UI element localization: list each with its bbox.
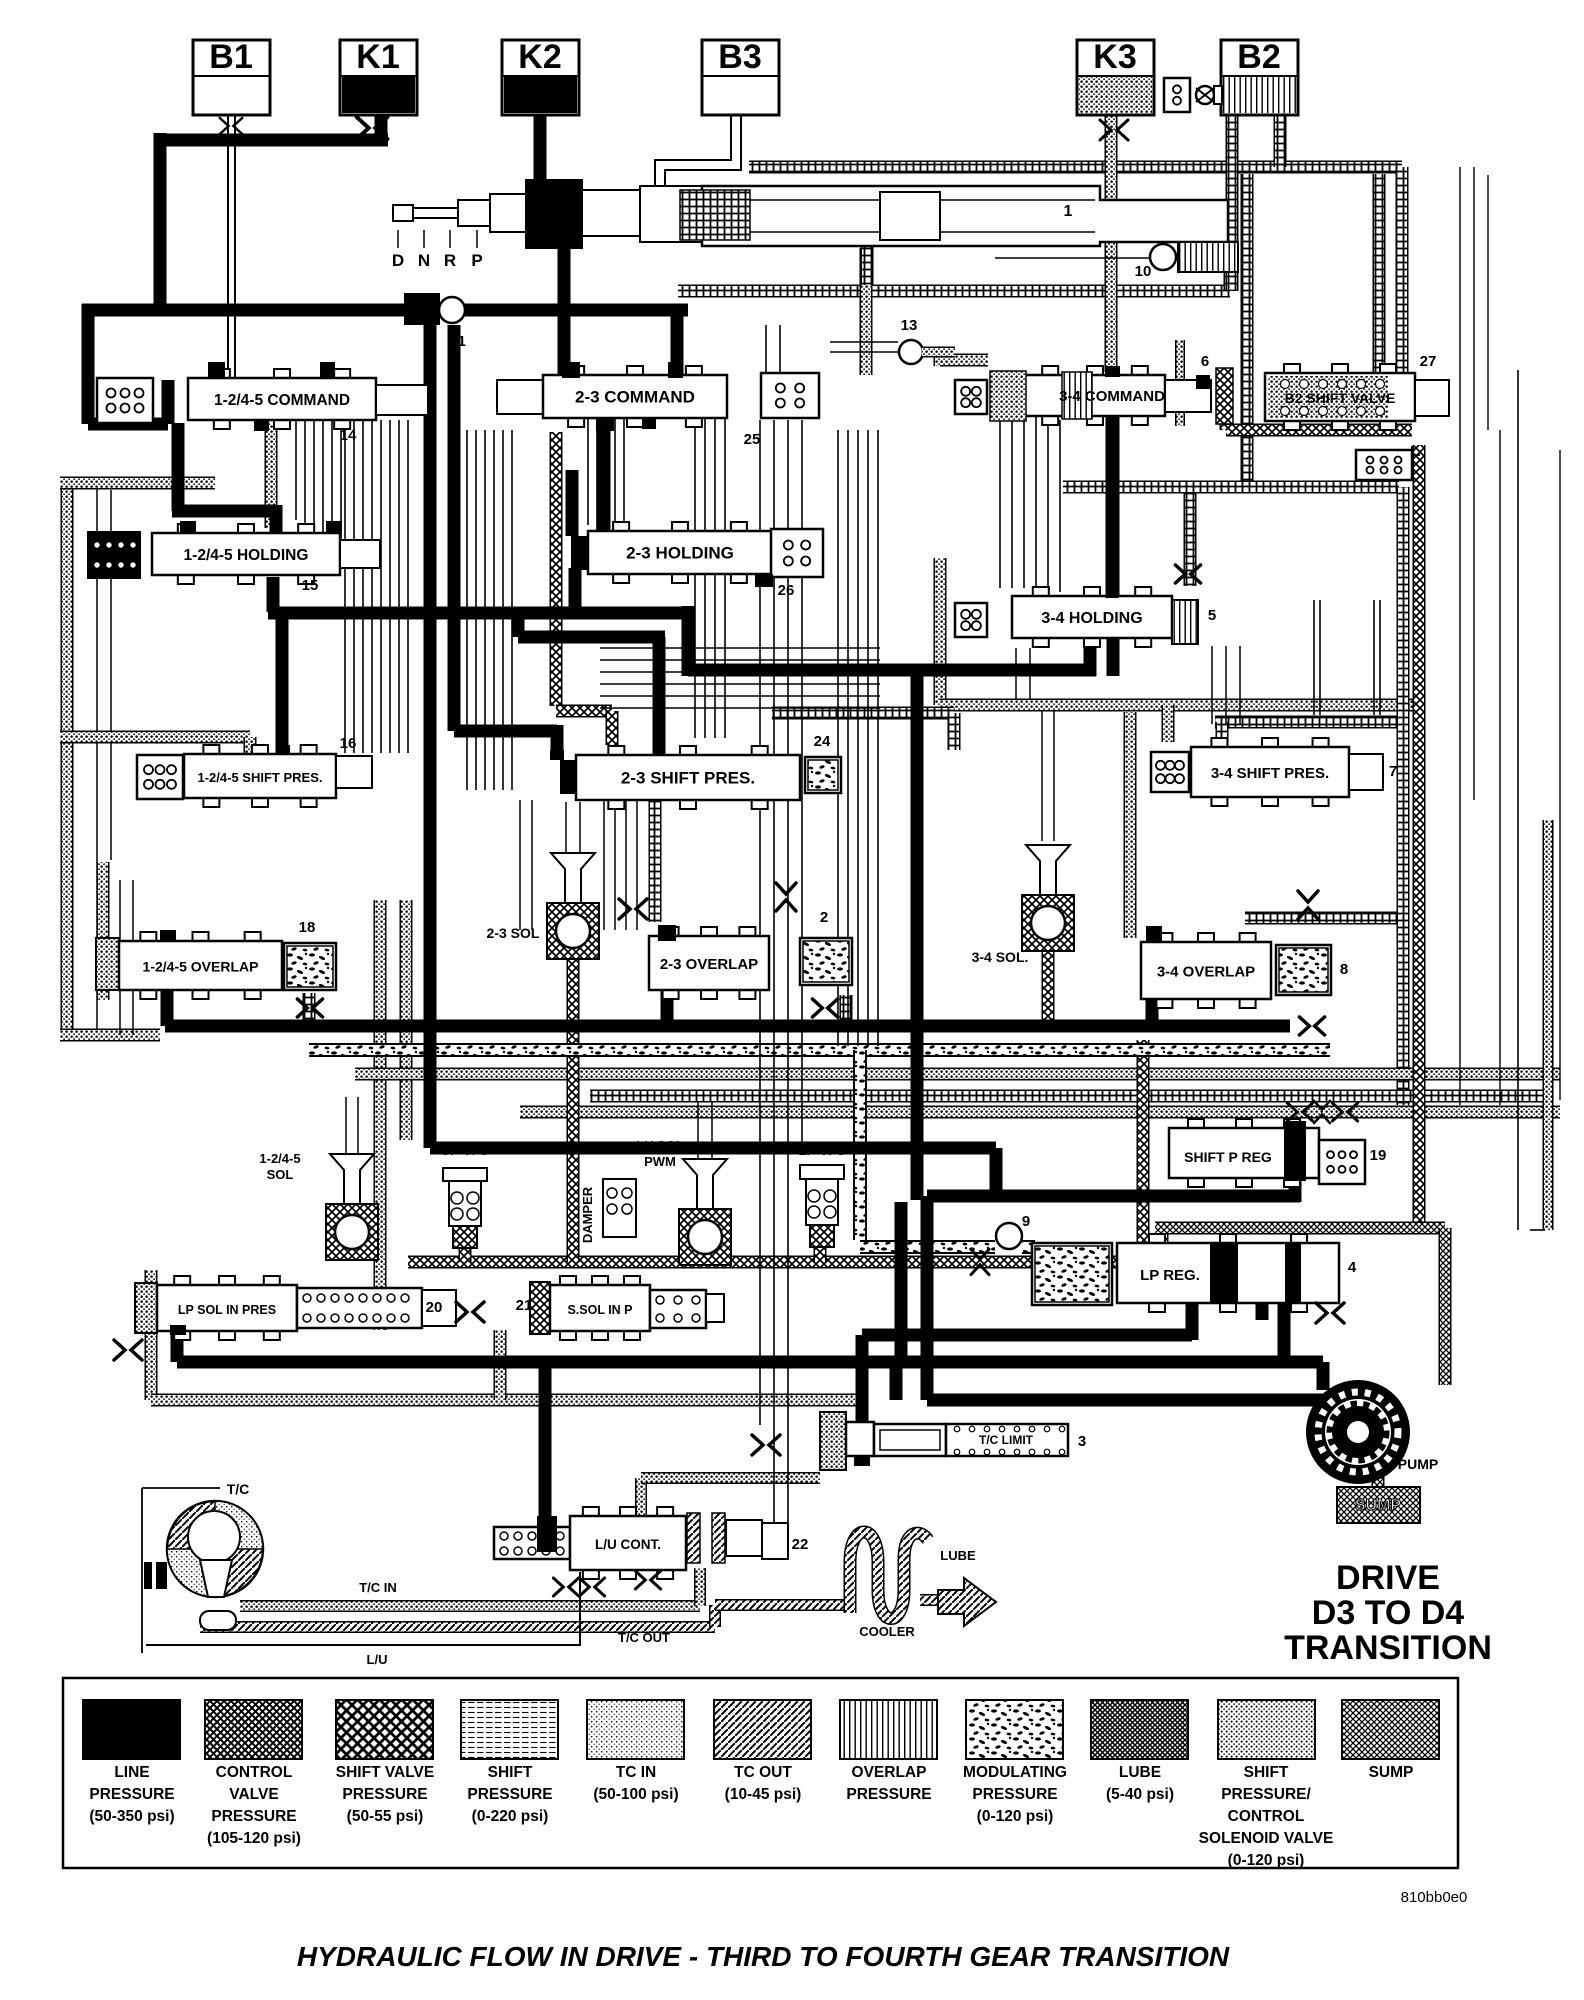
svg-text:(105-120 psi): (105-120 psi) xyxy=(207,1830,301,1847)
svg-text:LP SOL IN PRES: LP SOL IN PRES xyxy=(178,1303,276,1317)
svg-text:PRESSURE: PRESSURE xyxy=(846,1786,931,1803)
svg-text:LP VFS: LP VFS xyxy=(798,1143,845,1158)
svg-text:OVERLAP: OVERLAP xyxy=(852,1764,927,1781)
svg-text:24: 24 xyxy=(814,733,831,750)
svg-text:5: 5 xyxy=(1208,607,1216,624)
svg-text:PRESSURE: PRESSURE xyxy=(342,1786,427,1803)
svg-text:11: 11 xyxy=(450,333,466,350)
svg-text:27: 27 xyxy=(1420,353,1437,370)
svg-text:PUMP: PUMP xyxy=(1398,1456,1438,1472)
svg-text:S.SOL IN P: S.SOL IN P xyxy=(567,1303,632,1317)
svg-text:1: 1 xyxy=(1064,203,1073,220)
svg-text:PRESSURE: PRESSURE xyxy=(972,1786,1057,1803)
svg-text:19: 19 xyxy=(1370,1147,1387,1164)
svg-text:P: P xyxy=(471,251,482,270)
svg-text:4: 4 xyxy=(1348,1259,1357,1276)
svg-text:CONTROL: CONTROL xyxy=(216,1764,293,1781)
svg-text:LUBE: LUBE xyxy=(1119,1764,1161,1781)
svg-text:(50-350 psi): (50-350 psi) xyxy=(89,1808,174,1825)
svg-text:1-2/4-5 HOLDING: 1-2/4-5 HOLDING xyxy=(184,547,309,564)
svg-text:2-3 COMMAND: 2-3 COMMAND xyxy=(575,388,695,407)
svg-text:SHIFT P REG: SHIFT P REG xyxy=(1184,1149,1272,1165)
svg-text:3-4 HOLDING: 3-4 HOLDING xyxy=(1041,610,1142,627)
svg-text:R: R xyxy=(444,251,456,270)
svg-text:2-3 SHIFT PRES.: 2-3 SHIFT PRES. xyxy=(621,769,755,788)
svg-text:13: 13 xyxy=(901,317,918,334)
svg-text:SHIFT: SHIFT xyxy=(1244,1764,1289,1781)
svg-text:DRIVE: DRIVE xyxy=(1336,1559,1440,1597)
svg-text:1-2/4-5 SHIFT PRES.: 1-2/4-5 SHIFT PRES. xyxy=(198,770,323,785)
svg-text:PRESSURE/: PRESSURE/ xyxy=(1221,1786,1311,1803)
svg-text:MODULATING: MODULATING xyxy=(963,1764,1067,1781)
svg-text:10: 10 xyxy=(1135,263,1152,280)
svg-text:B3: B3 xyxy=(718,38,761,76)
svg-text:2-3 OVERLAP: 2-3 OVERLAP xyxy=(660,956,758,973)
svg-text:LP REG.: LP REG. xyxy=(1140,1267,1200,1284)
svg-text:TC IN: TC IN xyxy=(616,1764,656,1781)
svg-text:3: 3 xyxy=(1078,1433,1086,1450)
svg-text:16: 16 xyxy=(340,735,357,752)
svg-text:3-4 OVERLAP: 3-4 OVERLAP xyxy=(1157,964,1255,981)
svg-text:(5-40 psi): (5-40 psi) xyxy=(1106,1786,1174,1803)
svg-text:SHIFT VALVE: SHIFT VALVE xyxy=(336,1764,434,1781)
svg-text:26: 26 xyxy=(778,582,795,599)
svg-text:CONTROL: CONTROL xyxy=(1228,1808,1305,1825)
svg-text:D3 TO D4: D3 TO D4 xyxy=(1312,1594,1465,1632)
svg-text:DAMPER: DAMPER xyxy=(580,1186,595,1243)
svg-text:PRESSURE: PRESSURE xyxy=(89,1786,174,1803)
svg-text:COOLER: COOLER xyxy=(859,1624,915,1639)
svg-text:9: 9 xyxy=(1022,1213,1030,1230)
svg-text:25: 25 xyxy=(744,431,761,448)
svg-text:(50-55 psi): (50-55 psi) xyxy=(347,1808,424,1825)
svg-text:2: 2 xyxy=(820,909,828,926)
svg-text:K1: K1 xyxy=(356,38,399,76)
svg-text:SP VFS: SP VFS xyxy=(441,1143,489,1158)
svg-text:PRESSURE: PRESSURE xyxy=(467,1786,552,1803)
svg-text:K2: K2 xyxy=(518,38,561,76)
svg-text:1-2/4-5: 1-2/4-5 xyxy=(259,1151,300,1166)
svg-text:HYDRAULIC FLOW IN DRIVE - THIR: HYDRAULIC FLOW IN DRIVE - THIRD TO FOURT… xyxy=(297,1941,1230,1972)
svg-text:15: 15 xyxy=(302,577,319,594)
svg-text:VALVE: VALVE xyxy=(229,1786,278,1803)
svg-text:8: 8 xyxy=(1340,961,1348,978)
svg-text:22: 22 xyxy=(792,1536,809,1553)
svg-text:1-2/4-5 COMMAND: 1-2/4-5 COMMAND xyxy=(214,392,350,409)
svg-text:3-4 SHIFT PRES.: 3-4 SHIFT PRES. xyxy=(1211,765,1329,782)
svg-text:(10-45 psi): (10-45 psi) xyxy=(725,1786,802,1803)
svg-text:(0-120 psi): (0-120 psi) xyxy=(977,1808,1054,1825)
svg-text:810bb0e0: 810bb0e0 xyxy=(1401,1889,1468,1906)
svg-text:LINE: LINE xyxy=(114,1764,149,1781)
svg-text:(50-100 psi): (50-100 psi) xyxy=(593,1786,678,1803)
svg-text:T/C IN: T/C IN xyxy=(359,1580,397,1595)
svg-text:N: N xyxy=(418,251,430,270)
svg-text:L/U CONT.: L/U CONT. xyxy=(595,1537,661,1552)
svg-text:B2: B2 xyxy=(1237,38,1280,76)
svg-text:20: 20 xyxy=(426,1299,443,1316)
svg-text:18: 18 xyxy=(299,919,316,936)
svg-text:14: 14 xyxy=(340,427,357,444)
svg-text:SOLENOID VALVE: SOLENOID VALVE xyxy=(1199,1830,1334,1847)
svg-text:D: D xyxy=(392,251,404,270)
svg-text:T/C: T/C xyxy=(227,1481,250,1497)
svg-text:6: 6 xyxy=(1201,353,1209,370)
svg-text:SUMP: SUMP xyxy=(1355,1497,1402,1514)
svg-text:TRANSITION: TRANSITION xyxy=(1284,1629,1492,1667)
svg-text:SOL: SOL xyxy=(267,1167,294,1182)
svg-text:PRESSURE: PRESSURE xyxy=(211,1808,296,1825)
svg-text:3-4 COMMAND: 3-4 COMMAND xyxy=(1059,388,1165,405)
svg-text:B1: B1 xyxy=(209,38,252,76)
svg-text:SUMP: SUMP xyxy=(1369,1764,1414,1781)
svg-text:TC OUT: TC OUT xyxy=(734,1764,792,1781)
svg-text:SHIFT: SHIFT xyxy=(488,1764,533,1781)
svg-text:K3: K3 xyxy=(1093,38,1136,76)
svg-text:1-2/4-5 OVERLAP: 1-2/4-5 OVERLAP xyxy=(143,959,259,975)
svg-text:PWM: PWM xyxy=(644,1154,676,1169)
svg-text:T/C LIMIT: T/C LIMIT xyxy=(979,1433,1034,1447)
svg-text:7: 7 xyxy=(1389,763,1397,780)
svg-text:L/U: L/U xyxy=(367,1652,388,1667)
svg-text:B2 SHIFT VALVE: B2 SHIFT VALVE xyxy=(1285,390,1396,406)
svg-text:2-3 SOL: 2-3 SOL xyxy=(487,925,540,941)
svg-text:T/C OUT: T/C OUT xyxy=(618,1630,670,1645)
svg-text:(0-220 psi): (0-220 psi) xyxy=(472,1808,549,1825)
svg-text:(0-120 psi): (0-120 psi) xyxy=(1228,1852,1305,1869)
svg-text:LUBE: LUBE xyxy=(940,1548,976,1563)
svg-text:LU SOL: LU SOL xyxy=(636,1138,684,1153)
svg-text:2-3 HOLDING: 2-3 HOLDING xyxy=(626,544,734,563)
svg-text:3-4 SOL.: 3-4 SOL. xyxy=(972,949,1029,965)
svg-text:21: 21 xyxy=(516,1297,533,1314)
